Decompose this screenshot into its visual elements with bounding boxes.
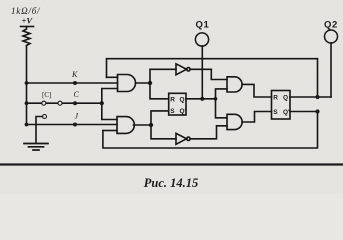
wire: C input line [27, 102, 102, 104]
svg-text:Q: Q [180, 96, 185, 103]
node: slave Q / top rail junction [315, 95, 319, 99]
figure bottom rule [0, 163, 343, 165]
terminal Q2 circle [325, 30, 338, 43]
svg-text:Q': Q' [180, 108, 187, 115]
wire: Q2 vertical [330, 43, 332, 97]
svg-text:Рис. 14.15: Рис. 14.15 [144, 176, 199, 190]
wire: G2 output to node B [133, 124, 151, 126]
wire: top feedback rail [107, 59, 318, 97]
svg-text:1kΩ/б/: 1kΩ/б/ [11, 6, 41, 16]
wire: master Q down to G4 top input [216, 99, 228, 118]
svg-text:R: R [273, 95, 278, 102]
wire: C split up to gate G1 [102, 89, 118, 104]
svg-text:S: S [273, 109, 278, 116]
node B (master S drive) [149, 123, 153, 127]
and-gate G2 (bottom left, 3-input) [117, 117, 134, 134]
svg-text:[C]: [C] [42, 91, 51, 99]
wire: switch pole to ground [36, 117, 43, 144]
node J terminal [73, 123, 77, 127]
wire: G3 output to latch U4 R input [242, 84, 271, 97]
node: bus-C junction [25, 101, 29, 105]
inverter U1 (top) [176, 64, 187, 75]
wire: G4 output to latch U4 S input [242, 112, 271, 123]
svg-text:K: K [71, 70, 78, 79]
wire: Q1 vertical [201, 46, 203, 99]
switch S1 contact left [42, 101, 46, 105]
node A (master R drive) [148, 81, 152, 85]
ground [24, 144, 48, 151]
switch S1 pole [43, 115, 47, 119]
svg-text:C: C [74, 90, 80, 99]
wire: U4 Q output [290, 96, 331, 98]
svg-text:J: J [75, 112, 79, 121]
wire: node A up to inverter U1 [150, 69, 176, 83]
node C terminal [73, 101, 77, 105]
and-gate G3 (top right, 2-input) [227, 77, 242, 92]
svg-text:Q1: Q1 [196, 20, 210, 31]
inverter U2 (bottom) [176, 133, 187, 144]
terminal Q1 circle [195, 33, 208, 46]
and-gate G1 (top left, 3-input) [118, 75, 136, 92]
node: bus-K junction [25, 81, 29, 85]
node: Q1 tap on master Q [200, 97, 204, 101]
wire: pull-up bus vertical [26, 46, 28, 125]
node: bus-J corner [25, 123, 29, 127]
node: slave Qbar / bottom rail junction [315, 109, 319, 113]
svg-text:Q: Q [283, 95, 288, 102]
svg-text:+V: +V [22, 16, 34, 26]
wire: bottom rail stub into G2 [103, 130, 117, 132]
resistor R1 (1kΩ pull-up) [23, 27, 30, 46]
svg-text:Q': Q' [283, 109, 290, 116]
wire: master Q up to G3 bottom input [216, 89, 228, 99]
wire: U4 Qbar output [290, 111, 318, 113]
wire: K input line [27, 82, 118, 84]
and-gate G4 (bottom right, 2-input) [227, 114, 242, 129]
latch U3 (master RS) [169, 93, 186, 115]
wire: U3 Q output line [186, 98, 216, 100]
node: C split junction [100, 101, 104, 105]
wire: node A down to latch U3 R input [150, 83, 169, 99]
node K terminal [73, 81, 77, 85]
wire: U1 output to G3 top input [190, 69, 227, 79]
wire: node B down to inverter U2 [151, 125, 176, 139]
wire: top rail stub into G1 [107, 76, 118, 78]
node: master Q split [214, 97, 218, 101]
+V supply rail bar [21, 26, 34, 28]
wire: J input line [27, 124, 118, 126]
wire: U2 output to G4 bottom input [190, 126, 227, 139]
switch S1 contact right [58, 101, 62, 105]
svg-text:S: S [170, 108, 175, 115]
wire: C split down to gate G2 [102, 103, 117, 119]
wire: bottom feedback rail [103, 112, 318, 149]
wire: node B up to latch U3 S input [151, 111, 169, 125]
latch U4 (slave RS) [272, 91, 291, 120]
svg-text:R: R [170, 96, 175, 103]
wire: G1 output to node A [136, 82, 151, 84]
svg-text:Q2: Q2 [324, 20, 338, 31]
